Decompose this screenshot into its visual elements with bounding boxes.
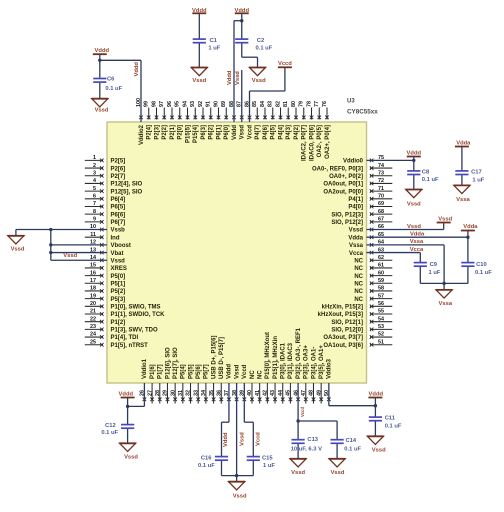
svg-text:P2[3]: P2[3] [154,125,160,140]
wire C2 bottom to ground branch [242,43,258,67]
svg-text:98: 98 [151,101,157,107]
svg-text:5: 5 [93,186,96,192]
svg-text:Vdda: Vdda [348,235,363,241]
svg-text:P1[2]: P1[2] [111,320,126,326]
svg-text:25: 25 [90,339,96,345]
power flag Vdda (pin 65) [461,224,478,230]
svg-text:72: 72 [378,178,384,184]
capacitor C14 0.1 uF [331,438,362,452]
svg-text:31: 31 [178,390,184,396]
pin 95 (P2[0]) top [175,101,184,140]
svg-text:Vssd: Vssd [349,228,364,234]
svg-text:62: 62 [378,255,384,261]
svg-text:P4[7]: P4[7] [255,125,261,140]
junction bus/pin10 [49,228,52,231]
power flag Vddd (C8 block) [407,150,422,156]
svg-text:P1[7]: P1[7] [158,364,164,379]
pin 51 (OA1out, P3[6]) right [323,339,392,349]
pin 53 (SIO, P12[0]) right [331,324,392,334]
pin 39 (Vccd) bottom [240,364,249,401]
pin 99 (P2[4]) top [144,101,153,140]
ground Vssa (C9/C10) [436,290,453,307]
ground Vssd (C13) [290,459,307,476]
pin 1 (P2[5]) left [85,155,125,165]
svg-text:kHzXout, P15[3]: kHzXout, P15[3] [318,312,363,318]
pin 45 (P3[1], IDAC3) bottom [286,342,295,403]
pin 41 (NC) bottom [255,370,264,404]
wire pin 37 Vddd to C16 [222,383,229,457]
wire pin 10 Vssb to ground [16,230,107,236]
svg-text:P1[0], SWIO, TMS: P1[0], SWIO, TMS [111,305,161,311]
svg-text:P3[3], OA3+: P3[3], OA3+ [304,345,310,379]
svg-text:19: 19 [90,293,96,299]
svg-text:Vddd: Vddd [227,364,233,379]
pin 29 (P12[6], SIO) bottom [163,347,172,404]
ground Vssd (C14) [329,459,346,476]
svg-text:27: 27 [147,390,153,396]
pin 13 (Vbat) left [90,247,124,257]
svg-text:P1[5], nTRST: P1[5], nTRST [111,343,149,349]
pin 6 (P6[4]) left [85,194,125,204]
wire Vddd flag to C1 [198,13,200,39]
ground Vssd (left) [8,236,25,253]
pin 92 (P6[3]) top [198,101,207,140]
pin 5 (P12[5], SIO) left [85,186,143,196]
svg-text:Vdda: Vdda [456,141,471,147]
svg-text:Vddd: Vddd [223,432,229,447]
svg-text:Vdda: Vdda [463,224,478,230]
svg-text:70: 70 [378,194,384,200]
svg-text:1 uF: 1 uF [429,270,441,276]
svg-text:P5[1]: P5[1] [111,281,126,287]
svg-text:3: 3 [93,170,96,176]
pin 47 (P3[3], OA3+) bottom [301,345,310,404]
wire C11 bottom to ground [374,421,376,436]
svg-text:34: 34 [201,390,207,396]
svg-text:P2[7]: P2[7] [111,174,126,180]
pin 40 (NC) bottom [247,370,256,404]
junction pin46/C14 branch [296,419,299,422]
svg-text:P4[2]: P4[2] [294,125,300,140]
pin 17 (P5[1]) left [85,278,125,288]
wire C14 bottom to ground [336,444,338,459]
pin 56 (kHzXin, P15[2]) right [322,301,393,311]
svg-text:P4[0]: P4[0] [348,205,363,211]
svg-text:1 uF: 1 uF [208,46,220,52]
svg-text:Vddd: Vddd [407,150,422,156]
wire Vss bus vertical [50,230,52,261]
pin 50 (Vddio3) bottom [324,358,333,401]
pin 74 (OA0-, REF0, P0[3]) right [312,163,392,173]
pin 11 (Ind) left [85,232,120,242]
junction Vddd/C2/pin88 [240,19,243,22]
svg-text:79: 79 [299,101,305,107]
svg-text:USB D-, P15[7]: USB D-, P15[7] [219,337,225,379]
pin 44 (P3[0], IDAC1) bottom [278,342,287,403]
svg-text:OA0+, P0[2]: OA0+, P0[2] [329,174,363,180]
ground Vssd (C11) [367,436,386,453]
svg-text:0.1 uF: 0.1 uF [475,270,492,276]
pin 71 (OA2out, P0[0]) right [323,186,392,196]
svg-text:P6[0]: P6[0] [224,125,230,140]
power flag Vddd (C6 block) [93,48,110,54]
svg-text:Vccd: Vccd [242,364,248,379]
svg-text:OA0out, P0[1]: OA0out, P0[1] [323,182,363,188]
capacitor C15 1 uF [247,456,276,470]
pin 36 (USB D-, P15[7]) bottom [216,337,225,404]
svg-text:OA2out, P0[0]: OA2out, P0[0] [323,189,363,195]
svg-text:6: 6 [93,194,96,200]
power flag Vddd (C12 block) [119,392,135,398]
svg-text:P2[1]: P2[1] [170,125,176,140]
svg-text:P2[0]: P2[0] [178,125,184,140]
svg-text:P1[3], SWV, TDO: P1[3], SWV, TDO [111,328,158,334]
svg-text:P4[4]: P4[4] [278,125,284,140]
pin 69 (P4[0]) right [348,201,392,211]
pin 87 (Vssd) top [237,101,246,139]
capacitor C9 1 uF [414,262,441,276]
svg-text:89: 89 [221,101,227,107]
svg-text:Vccd: Vccd [255,432,261,446]
svg-text:18: 18 [90,286,96,292]
junction bus/pin13 [49,251,52,254]
pin 96 (P2[1]) top [167,101,176,140]
svg-text:C12: C12 [105,423,116,429]
pin 100 (Vddio2) top [136,98,145,145]
pin 8 (P6[6]) left [85,209,125,219]
svg-text:1: 1 [93,155,96,161]
svg-text:60: 60 [378,270,384,276]
svg-text:48: 48 [309,390,315,396]
svg-text:NC: NC [354,297,363,303]
power flag Vssd (pin 66) [437,217,453,223]
svg-text:23: 23 [90,324,96,330]
svg-text:92: 92 [198,101,204,107]
pin 23 (P1[3], SWV, TDO) left [85,324,158,334]
svg-text:15: 15 [90,263,96,269]
wire pin 12 Vboost [51,244,107,246]
pin 66 (Vssd) right [349,224,384,234]
pin 43 (P15[1], MHzXin) bottom [270,336,279,404]
chip U3 CY8C55xx body [107,122,367,383]
svg-text:P15[5]: P15[5] [185,125,191,143]
svg-text:P6[2]: P6[2] [209,125,215,140]
svg-text:97: 97 [159,101,165,107]
svg-text:94: 94 [182,101,188,107]
pin 19 (P5[3]) left [85,293,125,303]
svg-text:24: 24 [90,332,96,338]
svg-text:P4[1]: P4[1] [348,197,363,203]
svg-text:Vboost: Vboost [111,243,131,249]
svg-text:P12[5], SIO: P12[5], SIO [111,189,143,195]
junction Vssa rail [442,282,445,285]
pin 60 (NC) right [354,270,392,280]
wire Vddd flag to junction (C11) [374,398,376,406]
svg-text:29: 29 [163,390,169,396]
svg-text:59: 59 [378,278,384,284]
svg-text:0.1 uF: 0.1 uF [385,424,402,430]
svg-text:96: 96 [167,101,173,107]
wire pin 26 Vddio1 [128,383,145,406]
pin 64 (Vssa) right [349,240,384,250]
svg-text:C16: C16 [201,456,212,462]
power flag Vddd (C2 block) [235,8,250,14]
svg-text:0.1 uF: 0.1 uF [256,46,273,52]
svg-text:80: 80 [291,101,297,107]
wire pin 46 to C13 [297,383,299,440]
wire C1 bottom to ground [198,43,200,67]
wire junction to C12 [127,406,129,424]
svg-text:P5[2]: P5[2] [111,289,126,295]
svg-text:Vssd: Vssd [11,246,25,252]
capacitor C16 0.1 uF [198,456,228,470]
pin 75 (Vddio0) right [343,155,384,165]
svg-text:69: 69 [378,201,384,207]
wire C17 bottom to ground [461,175,463,185]
pin 49 (P3[5], OA1+) bottom [316,345,325,404]
svg-text:P1[4], TDI: P1[4], TDI [111,335,139,341]
svg-text:42: 42 [263,390,269,396]
svg-text:41: 41 [255,390,261,396]
svg-text:Vdda: Vdda [410,232,425,238]
svg-text:P6[5]: P6[5] [111,205,126,211]
svg-text:P15[1], MHzXin: P15[1], MHzXin [273,336,279,379]
svg-text:54: 54 [378,316,384,322]
svg-text:Vddio0: Vddio0 [343,159,364,165]
svg-text:NC: NC [354,258,363,264]
pin 21 (P1[1], SWDIO, TCK) left [85,309,165,319]
wire C9 bottom rail to C10 bottom [420,267,468,284]
svg-text:73: 73 [378,170,384,176]
svg-text:C17: C17 [471,169,482,175]
pin 59 (NC) right [354,278,392,288]
wire Vddd flag through pin75 wire to C8 top [413,157,415,172]
pin 12 (Vboost) left [90,240,131,250]
pin 2 (P2[6]) left [85,163,125,173]
svg-text:U3: U3 [347,99,355,105]
pin 73 (OA0+, P0[2]) right [329,170,392,180]
wire C8 bottom to ground [413,175,415,189]
svg-text:Vddd: Vddd [227,70,233,85]
pin 84 (P4[6]) top [260,101,269,140]
svg-text:Vccd: Vccd [247,125,253,140]
wire junction to pin 88 Vddd [234,21,242,122]
svg-text:71: 71 [378,186,384,192]
wire Vddd flag to junction (C12) [127,398,129,407]
pin 65 (Vdda) right [348,232,384,242]
svg-text:17: 17 [90,278,96,284]
svg-text:P12[6], SIO: P12[6], SIO [165,347,171,379]
svg-text:99: 99 [144,101,150,107]
junction bus/pin12 [49,243,52,246]
pin 77 (OA2-, P0[5]) top [314,101,323,157]
svg-text:28: 28 [155,390,161,396]
pin 7 (P6[5]) left [85,201,125,211]
svg-text:P5[7]: P5[7] [204,364,210,379]
svg-text:Vddio2: Vddio2 [139,124,145,145]
capacitor C6 0.1 uF [93,76,122,92]
reference designator U3 [347,99,378,116]
wire Vdda flag to C17 [461,147,463,172]
wire pin 13 Vbat [51,252,107,254]
wire pin 86 Vccd up to flag [250,67,285,122]
svg-text:45: 45 [286,390,292,396]
pin 18 (P5[2]) left [85,286,125,296]
svg-text:56: 56 [378,301,384,307]
svg-text:P6[1]: P6[1] [216,125,222,140]
junction pin65/Vdda flag/C10 [466,236,469,239]
svg-text:XRES: XRES [111,266,127,272]
pin 33 (P5[6]) bottom [193,364,202,403]
svg-text:P12[4], SIO: P12[4], SIO [111,182,143,188]
svg-text:P2[5]: P2[5] [111,159,126,165]
capacitor C2 0.1 uF [235,38,273,52]
pin 24 (P1[4], TDI) left [85,332,139,342]
svg-text:91: 91 [206,101,212,107]
pin 61 (NC) right [354,263,392,273]
svg-text:P2[4]: P2[4] [147,125,153,140]
pin 15 (XRES) left [85,263,127,273]
wire pin 64 Vssa down to ground [367,245,445,290]
pin 58 (NC) right [354,286,392,296]
svg-text:16: 16 [90,270,96,276]
svg-text:NC: NC [257,370,263,379]
svg-text:P2[2]: P2[2] [162,125,168,140]
svg-text:Vssd: Vssd [407,224,421,230]
svg-text:21: 21 [90,309,96,315]
wire Vddd to pin 100 Vddio2 [100,60,141,122]
svg-text:P5[0]: P5[0] [111,274,126,280]
svg-text:76: 76 [322,101,328,107]
capacitor C12 0.1 uF [101,423,134,436]
svg-text:Vddd: Vddd [119,392,134,398]
pin 67 (SIO, P12[2]) right [331,217,392,227]
svg-text:kHzXin, P15[2]: kHzXin, P15[2] [322,305,363,311]
pin 85 (P4[7]) top [252,101,261,140]
svg-text:Vssd: Vssd [240,125,246,140]
svg-text:0.1 uF: 0.1 uF [105,86,122,92]
svg-text:P1[1], SWDIO, TCK: P1[1], SWDIO, TCK [111,312,166,318]
pin 81 (P4[3]) top [283,101,292,140]
wire Vddd flag down through C2 junction [241,13,243,39]
junction C6/Vddio2 [98,59,101,62]
svg-text:49: 49 [316,390,322,396]
svg-text:85: 85 [252,101,258,107]
wire junction to C6 top [99,60,101,77]
svg-text:C14: C14 [346,438,357,444]
pin 28 (P1[7]) bottom [155,364,164,403]
svg-text:30: 30 [170,390,176,396]
ground Vssd (C2) [249,68,266,84]
svg-text:Vssd: Vssd [438,217,452,223]
svg-text:0.1 uF: 0.1 uF [422,177,439,183]
svg-text:NC: NC [250,370,256,379]
svg-text:P3[4], OA1-: P3[4], OA1- [311,347,317,379]
svg-text:55: 55 [378,309,384,315]
svg-text:P4[6]: P4[6] [263,125,269,140]
svg-text:USB D+, P15[6]: USB D+, P15[6] [211,335,217,379]
svg-text:P1[6]: P1[6] [150,364,156,379]
svg-text:53: 53 [378,324,384,330]
pin 82 (P4[4]) top [275,101,284,140]
svg-text:Vssd: Vssd [63,253,77,259]
svg-text:10 uF, 6.3 V: 10 uF, 6.3 V [291,446,322,452]
wire Vddd flag to junction (C6) [99,54,101,60]
svg-text:P6[4]: P6[4] [111,197,126,203]
svg-text:61: 61 [378,263,384,269]
pin 48 (P3[4], OA1-) bottom [309,347,318,404]
wire C12 bottom to ground [127,429,129,443]
pin 76 (OA2+, P0[4]) top [322,101,331,159]
svg-text:Vddio1: Vddio1 [142,358,148,379]
svg-text:SIO, P12[3]: SIO, P12[3] [331,212,363,218]
svg-text:C6: C6 [107,76,115,82]
svg-text:58: 58 [378,286,384,292]
svg-text:47: 47 [301,390,307,396]
svg-text:OA0-, REF0, P0[3]: OA0-, REF0, P0[3] [312,166,363,172]
svg-text:Vccd: Vccd [300,407,305,417]
junction pin75/C8 [412,159,415,162]
pin 68 (SIO, P12[3]) right [331,209,392,219]
svg-text:C1: C1 [210,38,218,44]
svg-text:P4[5]: P4[5] [271,125,277,140]
pin 63 (Vcca) right [349,247,384,257]
pin 83 (P4[5]) top [268,101,277,140]
wire pin 39 Vccd to C15 [244,383,253,457]
svg-text:1 uF: 1 uF [263,463,275,469]
pin 80 (P4[2]) top [291,101,300,140]
pin 52 (OA3out, P3[7]) right [323,332,392,342]
svg-text:Vddd: Vddd [232,125,238,140]
svg-text:51: 51 [378,339,384,345]
pin 26 (Vddio1) bottom [140,358,149,401]
svg-text:P12[7], SIO: P12[7], SIO [173,347,179,379]
ground Vssd (C6) [91,99,108,114]
pin 3 (P2[7]) left [85,170,125,180]
svg-text:Vddio3: Vddio3 [327,358,333,379]
pin 37 (Vddd) bottom [224,364,233,401]
svg-text:52: 52 [378,332,384,338]
wire C6 bottom to ground [99,83,101,99]
wire pin 87 Vssd [241,70,243,122]
svg-text:P6[3]: P6[3] [201,125,207,140]
svg-text:Vssd: Vssd [372,447,386,453]
pin 22 (P1[2]) left [85,316,125,326]
svg-text:P3[5], OA1+: P3[5], OA1+ [319,345,325,379]
svg-text:77: 77 [314,101,320,107]
svg-text:P15[0], MHzXout: P15[0], MHzXout [265,332,271,379]
ground Vssd (C1) [191,68,208,84]
svg-text:84: 84 [260,101,266,107]
svg-text:SIO, P12[1]: SIO, P12[1] [331,320,363,326]
svg-text:1 uF: 1 uF [472,178,484,184]
svg-text:C11: C11 [385,415,396,421]
svg-text:Vddd: Vddd [134,62,140,77]
wire C13 bottom to ground [297,444,299,459]
ground Vssa (C17) [454,185,471,202]
svg-text:Vssd: Vssd [192,78,206,84]
svg-text:40: 40 [247,390,253,396]
svg-text:NC: NC [354,266,363,272]
capacitor C13 10 uF [291,437,322,452]
wire pin 14 Vssd [51,259,107,261]
svg-text:P6[7]: P6[7] [111,220,126,226]
ground Vssd (pin 38) [228,482,247,500]
pin 90 (P6[1]) top [213,101,222,140]
svg-text:IDAC2, P0[7]: IDAC2, P0[7] [302,125,308,161]
svg-text:Vcca: Vcca [410,247,424,253]
capacitor C1 1 uF [193,38,221,52]
